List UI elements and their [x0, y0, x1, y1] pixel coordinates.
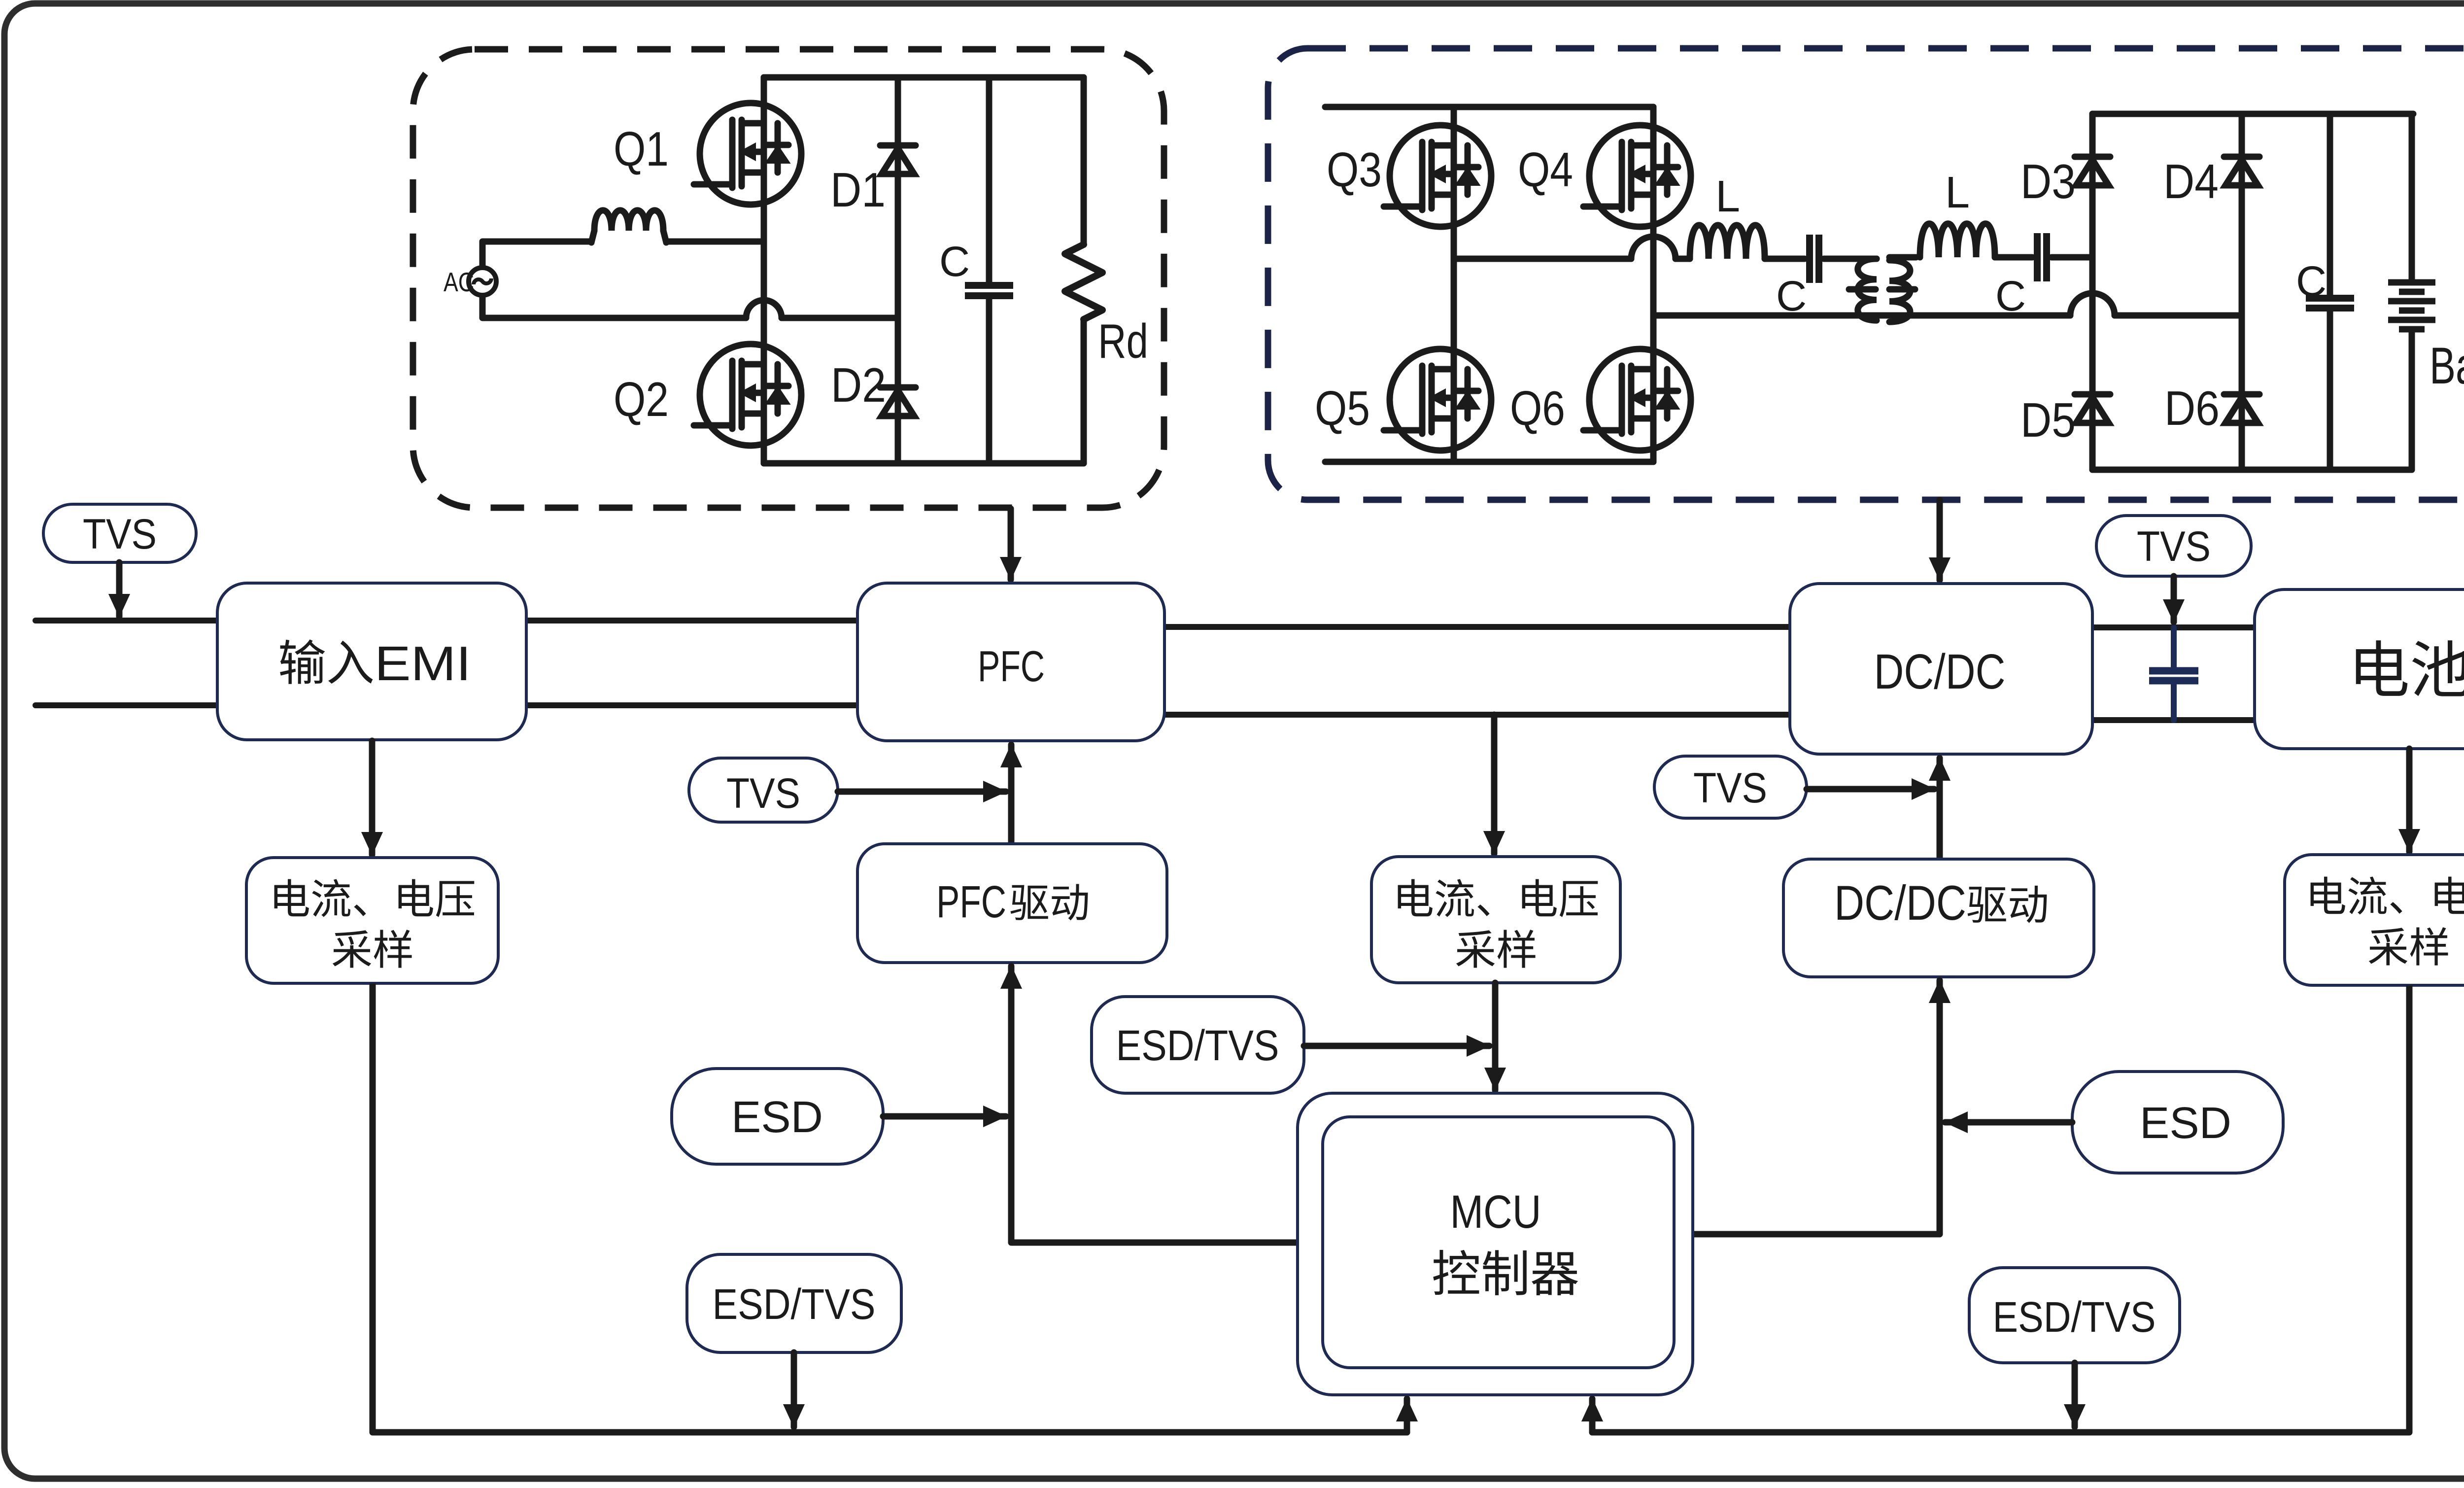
wire: AC input bus to EMI (bottom) — [35, 702, 217, 708]
wire: L to resonant capacitor — [1765, 256, 1805, 262]
block: MCU controller (inner) — [1323, 1117, 1674, 1368]
svg-text:C: C — [1995, 273, 2026, 320]
ac source AC — [469, 268, 496, 295]
svg-text:D4: D4 — [2163, 154, 2219, 208]
block: TVS (AC input) — [43, 504, 196, 562]
svg-text:Q6: Q6 — [1510, 381, 1565, 435]
wire/arrow: bus to mid sampling — [1491, 715, 1498, 854]
svg-text:DC/DC: DC/DC — [1834, 875, 1966, 930]
block: 电流、电压采样 (battery side sampling) — [2285, 855, 2464, 985]
transistor Q6 (bridge low side B) — [1583, 349, 1691, 450]
block: 电池 (battery) — [2255, 589, 2464, 749]
block: 输入EMI (input EMI filter) — [217, 583, 526, 740]
svg-text:EMI: EMI — [375, 636, 471, 691]
svg-text:AC: AC — [444, 267, 474, 297]
wire/arrow: ESD into PFC driver line — [883, 1113, 1006, 1120]
block: MCU controller (outer) — [1298, 1093, 1693, 1395]
wire: phase A to resonant tank (hops over phase-B leg) — [1454, 256, 1631, 262]
capacitor: DC-link cap on battery bus — [2171, 627, 2177, 669]
wire: capacitor to transformer primary — [1824, 256, 1877, 262]
capacitor C (resonant, secondary) — [2034, 233, 2041, 281]
svg-text:D2: D2 — [831, 358, 886, 412]
capacitor C (resonant, primary) — [1806, 235, 1813, 283]
diode D1 — [880, 145, 916, 174]
wire/arrow: TVS to input bus — [116, 562, 123, 617]
wire/arrow: ESD into DC/DC driver line — [1945, 1119, 2072, 1126]
inductor L (resonant, secondary) — [1920, 224, 1995, 257]
wire/arrow: mid sampling down into MCU — [1492, 983, 1499, 1090]
capacitor C (output filter) — [2327, 114, 2333, 297]
wire: inductor to Q1/Q2 midpoint node — [666, 239, 764, 245]
svg-text:PFC: PFC — [978, 642, 1045, 691]
block: DC/DC — [1790, 584, 2092, 754]
wire/arrow: PFC stage into PFC block — [1008, 509, 1014, 580]
svg-text:D3: D3 — [2020, 154, 2076, 208]
wire: Q3 drain lead — [1451, 107, 1457, 125]
wire/arrow: battery block to sampling — [2406, 749, 2413, 852]
capacitor C (PFC output cap) — [986, 77, 992, 285]
svg-text:ESD/TVS: ESD/TVS — [1993, 1293, 2156, 1341]
svg-text:PFC: PFC — [936, 877, 1006, 927]
block: 电流、电压采样 (PFC output sampling) — [1371, 857, 1620, 983]
diode D6 — [2224, 394, 2259, 423]
wire: rectifier bottom rail — [2092, 467, 2412, 473]
svg-text:TVS: TVS — [2137, 523, 2211, 570]
svg-text:Q5: Q5 — [1315, 381, 1370, 435]
svg-text:Q3: Q3 — [1327, 142, 1382, 197]
svg-text:Rd: Rd — [1098, 314, 1148, 368]
wire: D4/D6 leg — [2239, 114, 2245, 470]
svg-text:ESD/TVS: ESD/TVS — [713, 1280, 876, 1328]
block: ESD/TVS (sampling line) — [1092, 997, 1304, 1093]
wire: bridge top rail — [1325, 104, 1653, 110]
svg-text:Q4: Q4 — [1518, 142, 1573, 197]
wire: DC/DC to battery bus (top) — [2092, 624, 2255, 630]
wire: capacitor to rectifier midpoint A — [2052, 254, 2092, 261]
block: ESD (PFC drive line) — [672, 1069, 883, 1164]
wire: PFC driver to MCU — [1011, 1010, 1298, 1243]
wire: Q3 source to Q5 drain (phase A node) — [1451, 227, 1457, 349]
wire/arrow: ESD/TVS onto sampling run — [791, 1352, 797, 1427]
svg-text:MCU: MCU — [1450, 1186, 1541, 1238]
dashed enclosure: totem-pole PFC power stage — [413, 49, 1164, 508]
wire: D3/D5 leg — [2089, 114, 2096, 470]
svg-text:C: C — [2296, 258, 2327, 305]
wire: Q2 source lead to bottom rail — [761, 446, 767, 463]
block: DC/DC驱动 (DC/DC driver) — [1783, 859, 2094, 977]
svg-text:D6: D6 — [2164, 381, 2220, 435]
wire: PFC to DC/DC bus (top) — [1164, 624, 1790, 630]
wire: AC sampling to MCU (bottom-left run) — [373, 983, 1407, 1432]
block: ESD (DC/DC drive line) — [2072, 1072, 2283, 1173]
svg-text:ESD: ESD — [731, 1093, 823, 1142]
block: 电流、电压采样 (AC side sampling) — [246, 858, 498, 983]
block: PFC驱动 (PFC driver) — [857, 844, 1167, 963]
wire: PFC top rail — [764, 74, 1084, 81]
resistor Rd (bleeder) — [1081, 77, 1087, 244]
svg-text:ESD: ESD — [2140, 1099, 2231, 1148]
svg-text:Q2: Q2 — [614, 372, 669, 426]
transistor Q4 (bridge high side B) — [1583, 125, 1691, 227]
wire/arrow: DC/DC stage into DC/DC block — [1937, 500, 1943, 580]
svg-text:DC/DC: DC/DC — [1874, 644, 2006, 699]
wire: DC/DC to battery bus (bottom) — [2092, 717, 2255, 723]
diode D2 — [880, 387, 916, 416]
block: PFC — [857, 583, 1164, 741]
wire: AC live to boost inductor — [482, 242, 591, 268]
wire/arrow: ESD/TVS into sampling line — [1304, 1043, 1489, 1049]
dashed enclosure: full-bridge LLC DC/DC power stage — [1268, 48, 2464, 500]
wire/arrow: DC/DC driver to DC/DC block — [1937, 758, 1943, 859]
transformer T1 — [1858, 259, 1877, 320]
diode D4 — [2224, 157, 2259, 185]
svg-text:TVS: TVS — [1693, 764, 1767, 812]
wire/arrow: TVS to battery bus — [2171, 576, 2177, 622]
wire: Q4 drain lead — [1650, 107, 1657, 125]
wire/arrow: EMI block to current/voltage sampling — [369, 741, 376, 855]
wire: battery sampling to MCU (bottom-right run) — [1592, 985, 2409, 1432]
wire: bridge bottom rail — [1325, 459, 1653, 465]
wire: secondary L to capacitor — [1995, 254, 2032, 261]
block: TVS (DC/DC gate) — [1654, 756, 1807, 818]
wire: AC neutral to D1/D2 midpoint (hops over MOSFET leg) — [482, 295, 746, 318]
wire: Q1 drain lead — [761, 77, 767, 103]
inductor L (resonant, primary) — [1690, 225, 1765, 259]
wire/arrow: ESD/TVS onto battery sampling run — [2072, 1363, 2078, 1427]
transistor Q1 (MOSFET, totem-pole fast leg high side) — [694, 103, 801, 205]
wire: Q5 source lead — [1451, 450, 1457, 462]
wire: D1/D2 slow leg branch — [895, 77, 901, 463]
svg-text:D1: D1 — [830, 163, 886, 217]
wire: DC/DC driver to MCU — [1693, 1025, 1940, 1234]
wire: AC input bus to EMI (top) — [35, 618, 217, 623]
svg-text:TVS: TVS — [83, 511, 157, 558]
wire: rectifier top rail — [2092, 111, 2413, 117]
transistor Q5 (bridge low side A) — [1384, 349, 1491, 450]
wire: PFC to DC/DC bus (bottom) — [1164, 712, 1790, 718]
wire: PFC bottom rail — [764, 460, 1084, 467]
wire: Q1 source to Q2 drain — [761, 205, 767, 344]
diode D3 — [2075, 157, 2110, 185]
inductor L (PFC boost choke) — [591, 231, 594, 242]
battery Battery — [2409, 114, 2415, 281]
wire/arrow: TVS into PFC drive line — [838, 789, 1006, 795]
diode D5 — [2075, 394, 2110, 423]
wire: phase B return under transformer to D4/D6 midpoint (hops over D3/D5 leg) — [1653, 312, 2070, 319]
svg-text:Q1: Q1 — [614, 122, 669, 176]
wire/arrow: TVS into DC/DC drive line — [1807, 786, 1934, 793]
svg-text:L: L — [1945, 168, 1970, 217]
block: TVS (PFC gate) — [689, 758, 838, 822]
svg-text:Battery: Battery — [2430, 337, 2464, 395]
wire/arrow: PFC driver to PFC block — [1008, 748, 1015, 844]
block: TVS (battery bus) — [2096, 516, 2251, 576]
svg-text:C: C — [939, 238, 970, 285]
wire: EMI to PFC bus (top) — [526, 618, 857, 623]
svg-text:TVS: TVS — [726, 770, 800, 817]
svg-text:ESD/TVS: ESD/TVS — [1116, 1022, 1279, 1070]
svg-text:D5: D5 — [2020, 393, 2076, 447]
transistor Q2 (MOSFET, totem-pole fast leg low side) — [694, 344, 801, 446]
wire: Q4 source to Q6 drain (phase B node) — [1650, 227, 1657, 349]
block: ESD/TVS (AC sampling line) — [687, 1254, 901, 1352]
svg-text:L: L — [1715, 172, 1740, 221]
transistor Q3 (bridge high side A) — [1384, 125, 1491, 227]
wire: Q6 source lead — [1650, 450, 1657, 462]
block: ESD/TVS (battery sampling line) — [1969, 1268, 2180, 1363]
wire: EMI to PFC bus (bottom) — [526, 702, 857, 708]
